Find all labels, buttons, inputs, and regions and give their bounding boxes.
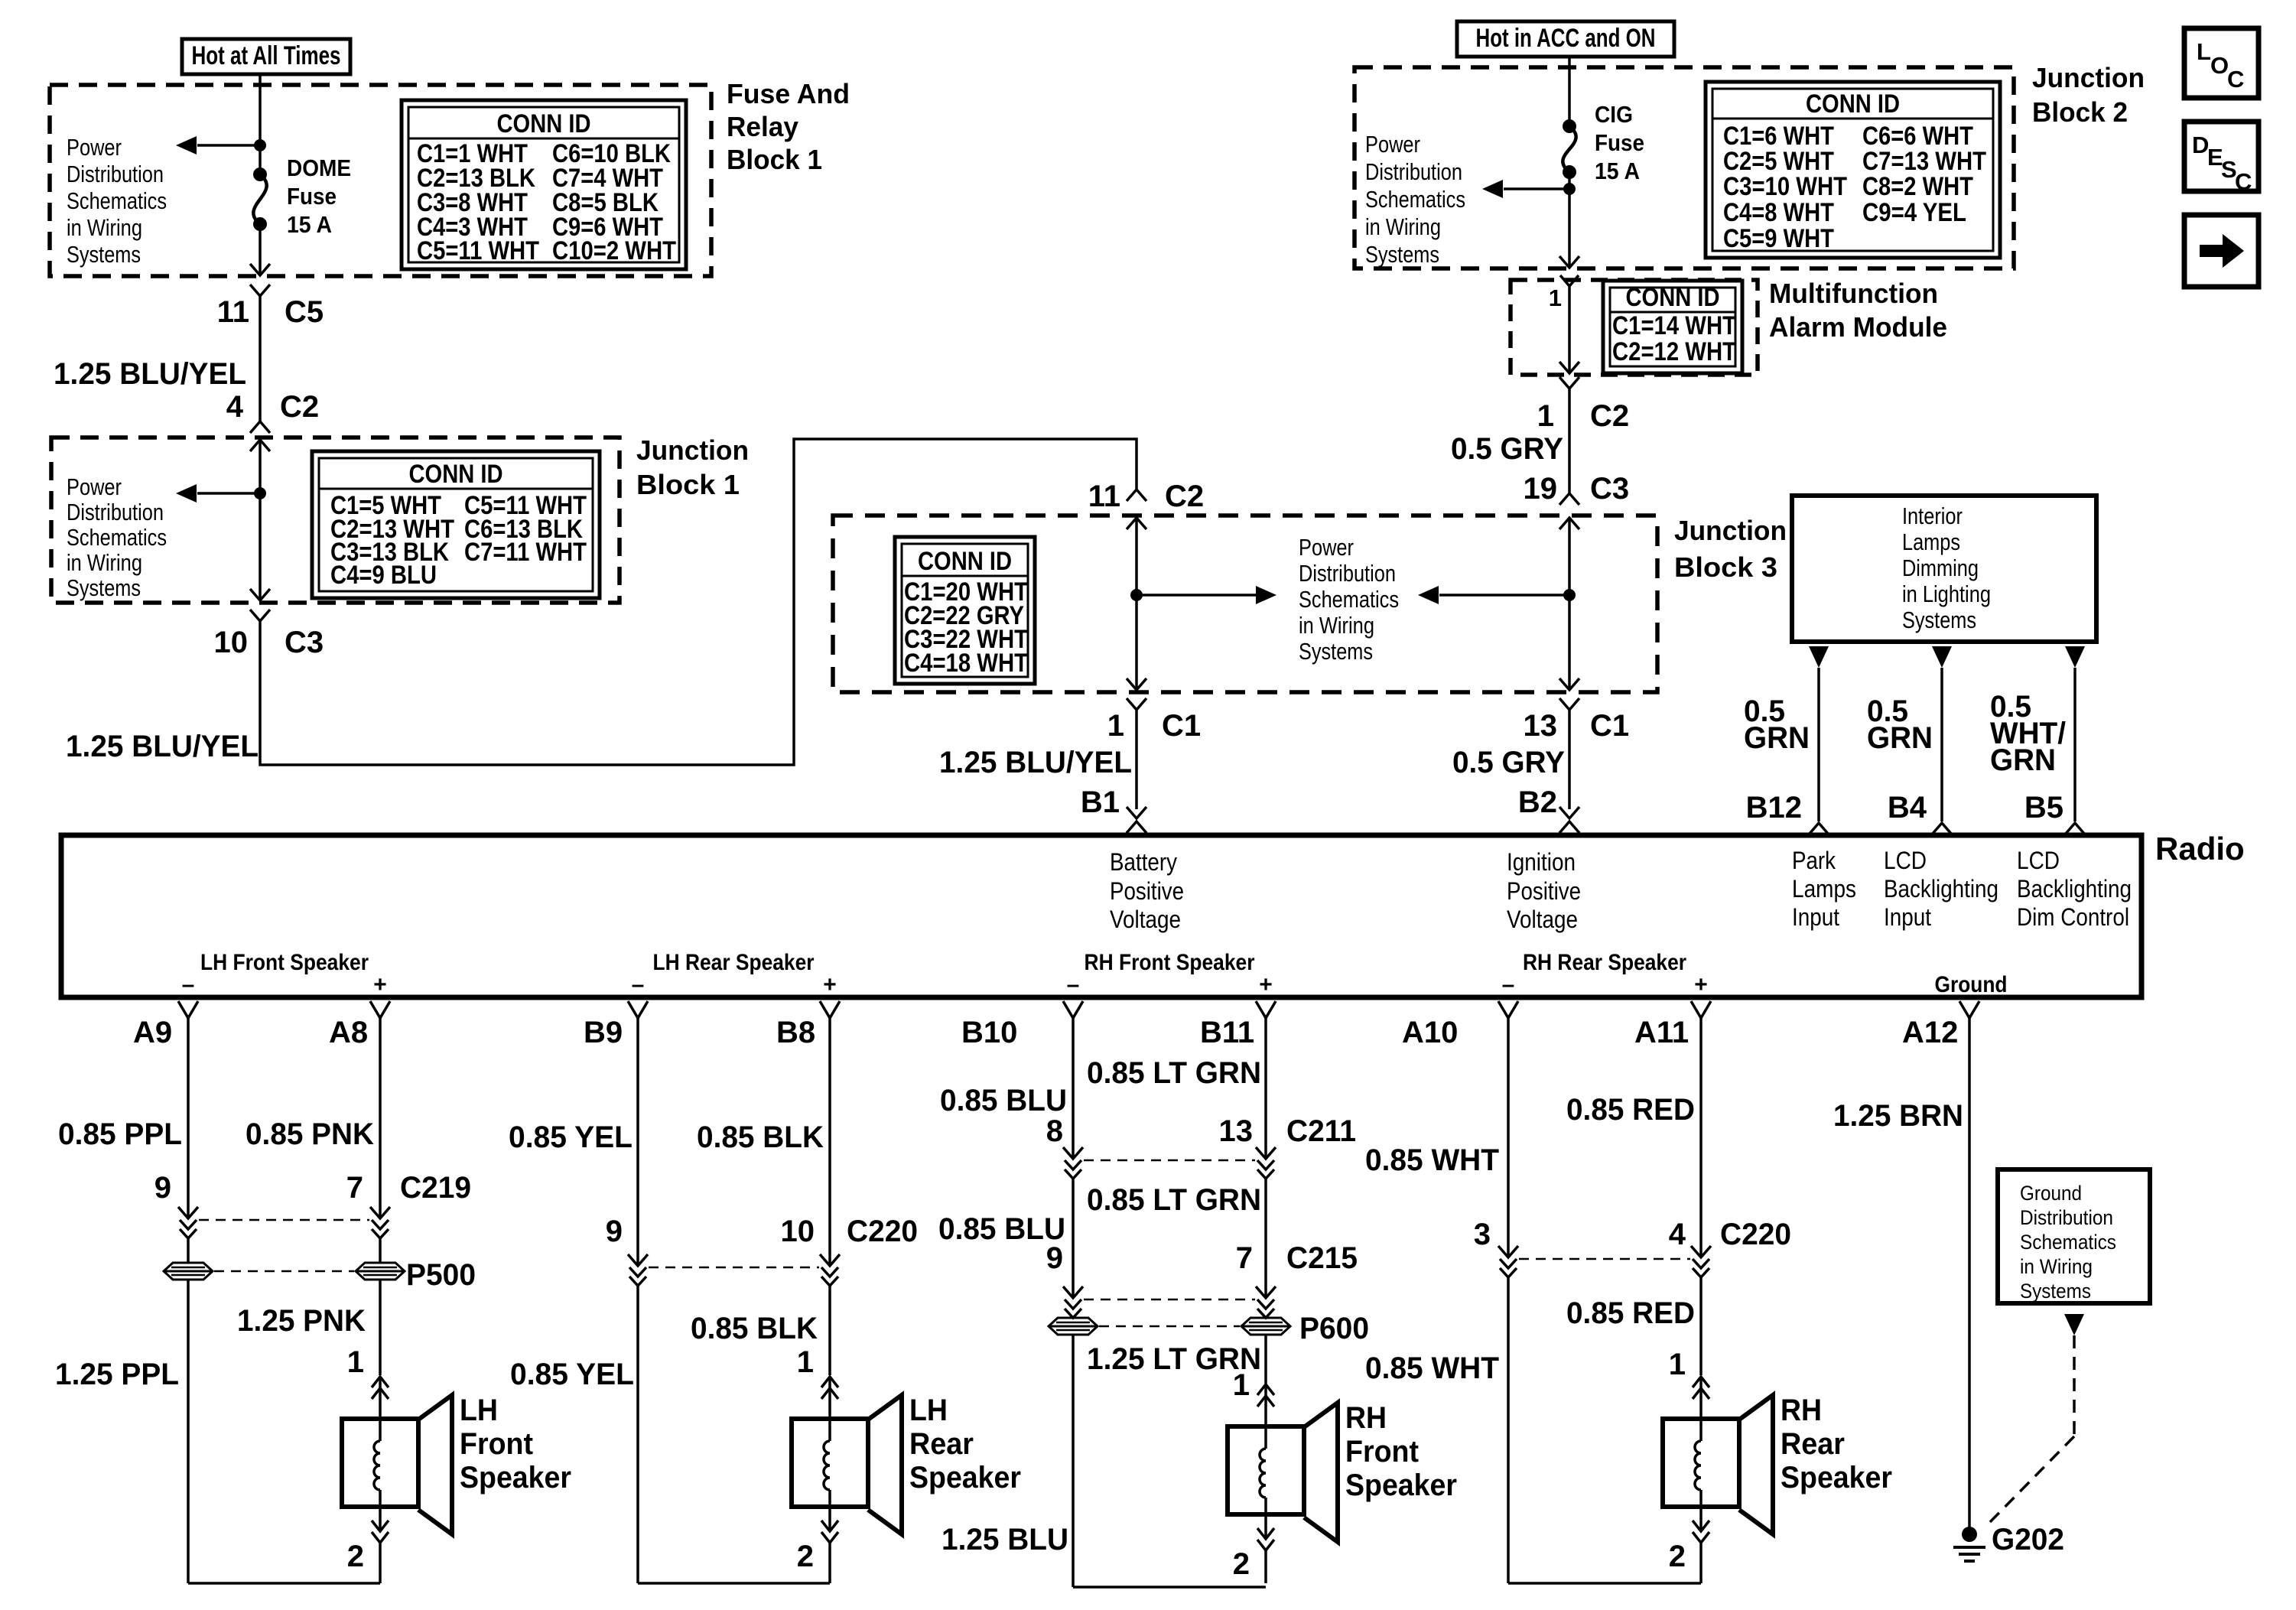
svg-text:GRN: GRN [1867, 721, 1933, 755]
wire speaker return to B10 (RH front) [1073, 1586, 1266, 1589]
svg-text:4: 4 [1669, 1218, 1686, 1251]
wire A12 1.25 BRN ground [1968, 1017, 1971, 1530]
svg-text:Voltage: Voltage [1507, 906, 1578, 933]
svg-text:0.85 LT GRN: 0.85 LT GRN [1087, 1056, 1261, 1090]
connector C3 pin 10 break [250, 610, 270, 621]
svg-text:+: + [823, 972, 837, 997]
svg-text:in Wiring: in Wiring [67, 549, 142, 576]
svg-text:+: + [1694, 972, 1708, 997]
svg-text:LH Rear Speaker: LH Rear Speaker [653, 950, 815, 975]
svg-text:in Lighting: in Lighting [1902, 581, 1991, 607]
svg-text:B12: B12 [1746, 791, 1802, 825]
connector C220 break (LH rear) [628, 1254, 648, 1266]
svg-text:LCD: LCD [1884, 847, 1927, 874]
wire A9 1.25 PPL [187, 1280, 190, 1583]
svg-text:Hot at All Times: Hot at All Times [192, 41, 341, 70]
svg-text:2: 2 [1233, 1547, 1250, 1581]
svg-text:B10: B10 [961, 1016, 1017, 1049]
connector C2 pin 1 break (alarm) [1559, 377, 1579, 389]
svg-text:C219: C219 [400, 1171, 471, 1205]
wire B10 0.85 BLU [1072, 1018, 1075, 1159]
svg-text:0.85 PNK: 0.85 PNK [246, 1117, 374, 1151]
svg-text:Distribution: Distribution [67, 161, 164, 187]
svg-text:Junction: Junction [2032, 62, 2145, 93]
svg-text:Power: Power [67, 473, 122, 500]
wire JB3 right leg [1559, 518, 1579, 529]
arrow (down) at fuse block exit [250, 264, 270, 275]
svg-text:1.25 BLU/YEL: 1.25 BLU/YEL [66, 730, 259, 763]
dashed box Fuse And Relay Block 1 [50, 85, 711, 276]
label "Hot in ACC and ON" [1457, 21, 1674, 57]
svg-text:+: + [1259, 972, 1273, 997]
junction node JB2 [1563, 183, 1576, 195]
arrow right to schematics text (JB3) [1137, 594, 1266, 597]
svg-text:Systems: Systems [2020, 1280, 2091, 1303]
wire 1.25 BLU/YEL JB1 to JB3 C2 [260, 439, 1137, 765]
svg-text:2: 2 [347, 1540, 364, 1573]
svg-text:Junction: Junction [636, 434, 749, 466]
svg-text:1: 1 [1669, 1348, 1686, 1381]
svg-text:B9: B9 [584, 1016, 623, 1049]
svg-text:C7=11 WHT: C7=11 WHT [464, 538, 587, 567]
svg-text:Systems: Systems [1365, 241, 1439, 268]
connector C1 pin 13 break (right) [1559, 698, 1579, 710]
dashed box Junction Block 3 [833, 516, 1657, 692]
svg-text:Front: Front [1345, 1435, 1419, 1469]
svg-text:0.85 RED: 0.85 RED [1566, 1093, 1695, 1127]
svg-text:C4=8 WHT: C4=8 WHT [1723, 198, 1834, 227]
svg-text:1.25 BRN: 1.25 BRN [1833, 1099, 1963, 1133]
svg-text:GRN: GRN [1744, 721, 1810, 755]
svg-text:Systems: Systems [1299, 638, 1373, 665]
legend box DESC [2184, 122, 2259, 191]
svg-text:1: 1 [1549, 285, 1562, 311]
component Radio (box) [61, 835, 2142, 997]
svg-text:1.25 PPL: 1.25 PPL [55, 1358, 179, 1391]
svg-text:Dimming: Dimming [1902, 555, 1979, 581]
label "Hot at All Times" [182, 39, 350, 74]
radio pin A12 connector [1959, 1001, 1979, 1018]
wire B9 0.85 YEL [636, 1018, 639, 1266]
svg-text:8: 8 [1046, 1114, 1063, 1148]
svg-text:Block 3: Block 3 [1674, 551, 1777, 583]
svg-text:A12: A12 [1902, 1016, 1958, 1049]
radio pin A9 connector [178, 1001, 198, 1018]
svg-text:1.25 BLU/YEL: 1.25 BLU/YEL [939, 746, 1132, 779]
svg-text:Positive: Positive [1110, 877, 1184, 905]
svg-text:C211: C211 [1286, 1114, 1356, 1148]
wire interior lamps to radio B12 [1809, 646, 1829, 668]
svg-text:1: 1 [347, 1345, 364, 1379]
in-line connector P500 [164, 1263, 213, 1280]
svg-text:Dim Control: Dim Control [2017, 903, 2129, 931]
wire ignition feed through JB2 [1568, 57, 1571, 126]
svg-text:0.5 GRY: 0.5 GRY [1452, 746, 1565, 779]
svg-text:CONN ID: CONN ID [918, 547, 1012, 576]
legend box LOC [2184, 28, 2259, 98]
wire A10 0.85 WHT [1507, 1018, 1510, 1257]
svg-text:C: C [2227, 66, 2244, 93]
svg-text:Interior: Interior [1902, 503, 1963, 529]
wire A9 to P500 [187, 1238, 190, 1263]
connector table alarm CONN ID [1603, 281, 1742, 373]
speaker RH Rear Speaker [1693, 1377, 1709, 1387]
svg-text:Distribution: Distribution [1365, 158, 1462, 185]
svg-text:1: 1 [797, 1345, 814, 1379]
svg-text:B5: B5 [2024, 791, 2063, 825]
svg-text:–: – [1067, 972, 1080, 997]
svg-text:A8: A8 [329, 1016, 368, 1049]
svg-text:CONN ID: CONN ID [497, 109, 591, 138]
wire B10 1.25 BLU [1072, 1335, 1075, 1587]
svg-text:C2: C2 [280, 390, 319, 424]
arrow below ground distribution box [2064, 1314, 2084, 1335]
box Interior Lamps Dimming in Lighting Systems [1792, 496, 2096, 642]
svg-text:Input: Input [1792, 903, 1839, 931]
svg-text:13: 13 [1219, 1114, 1254, 1148]
svg-text:15 A: 15 A [287, 211, 332, 238]
wire through alarm module [1560, 275, 1579, 286]
connector C219 break [178, 1207, 198, 1218]
svg-text:P500: P500 [406, 1258, 476, 1292]
junction node JB3 left [1130, 589, 1143, 601]
svg-text:Fuse And: Fuse And [727, 78, 850, 109]
wire B8 0.85 BLK [828, 1018, 831, 1266]
wire JB3 left leg [1127, 518, 1146, 529]
svg-text:C1=14 WHT: C1=14 WHT [1612, 311, 1736, 340]
connector table JB3 CONN ID [895, 537, 1035, 684]
svg-text:Schematics: Schematics [67, 524, 167, 551]
svg-text:C10=2 WHT: C10=2 WHT [552, 236, 676, 265]
svg-text:Backlighting: Backlighting [2017, 875, 2132, 903]
wire 1.25 BLU/YEL C5 to C2 [259, 296, 262, 421]
svg-text:Fuse: Fuse [287, 183, 337, 210]
svg-text:9: 9 [1046, 1241, 1063, 1275]
svg-text:B8: B8 [776, 1016, 815, 1049]
svg-text:Backlighting: Backlighting [1884, 875, 1998, 903]
svg-text:B4: B4 [1888, 791, 1927, 825]
svg-text:LCD: LCD [2017, 847, 2060, 874]
svg-text:Ground: Ground [1935, 972, 2008, 997]
svg-text:Multifunction: Multifunction [1769, 278, 1938, 309]
svg-text:Power: Power [1365, 131, 1420, 158]
svg-text:0.85 WHT: 0.85 WHT [1365, 1351, 1499, 1385]
svg-text:–: – [632, 972, 645, 997]
svg-text:C3: C3 [285, 626, 324, 659]
svg-text:Alarm Module: Alarm Module [1769, 311, 1947, 343]
svg-text:11: 11 [217, 295, 249, 329]
box Ground Distribution Schematics [1998, 1169, 2150, 1303]
svg-text:0.85 LT GRN: 0.85 LT GRN [1087, 1183, 1261, 1217]
connector table JB1 CONN ID [312, 451, 600, 598]
svg-text:Speaker: Speaker [460, 1461, 571, 1495]
svg-text:13: 13 [1524, 709, 1558, 743]
svg-text:RH Rear Speaker: RH Rear Speaker [1523, 950, 1686, 975]
svg-text:Rear: Rear [1781, 1427, 1845, 1461]
svg-text:C5=9 WHT: C5=9 WHT [1723, 224, 1834, 253]
svg-text:Distribution: Distribution [2020, 1206, 2113, 1229]
wire speaker return to B9 (LH rear) [638, 1582, 830, 1585]
svg-text:C1: C1 [1162, 709, 1201, 743]
svg-text:Lamps: Lamps [1902, 529, 1960, 555]
svg-text:G202: G202 [1992, 1523, 2064, 1556]
svg-text:Junction: Junction [1674, 515, 1787, 546]
svg-text:0.85 BLK: 0.85 BLK [691, 1312, 818, 1345]
svg-text:Hot in ACC and ON: Hot in ACC and ON [1476, 24, 1656, 53]
svg-text:Schematics: Schematics [1365, 186, 1465, 213]
svg-text:2: 2 [797, 1540, 814, 1573]
svg-text:C215: C215 [1286, 1241, 1358, 1275]
fuse CIG 15A [1563, 119, 1576, 133]
svg-text:A10: A10 [1402, 1016, 1458, 1049]
svg-text:Systems: Systems [67, 574, 141, 601]
svg-text:0.85 PPL: 0.85 PPL [58, 1117, 182, 1151]
dashed wire to ground G202 [2073, 1335, 2076, 1436]
svg-text:in Wiring: in Wiring [1299, 612, 1374, 639]
svg-text:Ground: Ground [2020, 1182, 2082, 1205]
dashed box Junction Block 2 [1355, 67, 2014, 268]
svg-text:Block 1: Block 1 [727, 144, 822, 175]
junction node JB3 right [1563, 589, 1576, 601]
svg-text:19: 19 [1524, 472, 1558, 506]
svg-text:Positive: Positive [1507, 877, 1581, 905]
ground G202 node [1962, 1527, 1977, 1542]
connector table FB1 CONN ID [402, 100, 686, 269]
connector C220 break (RH rear) [1498, 1246, 1518, 1257]
wire interior lamps to radio B4 [1932, 646, 1952, 668]
svg-text:C1: C1 [1590, 709, 1629, 743]
svg-text:1.25 BLU: 1.25 BLU [941, 1523, 1068, 1556]
svg-text:CONN ID: CONN ID [1626, 283, 1720, 312]
svg-text:C2=12 WHT: C2=12 WHT [1612, 337, 1736, 366]
wire A8 1.25 PNK [379, 1280, 382, 1375]
svg-text:in Wiring: in Wiring [67, 214, 142, 241]
wire B11 0.85 LT GRN [1264, 1018, 1267, 1159]
radio pin B11 connector [1256, 1001, 1276, 1018]
legend box forward arrow [2184, 215, 2259, 287]
dashed box Junction Block 1 [51, 437, 620, 603]
svg-text:9: 9 [606, 1215, 623, 1248]
svg-text:C2: C2 [1590, 399, 1629, 433]
wire A8 0.85 PNK [379, 1018, 382, 1218]
wire 0.5 GRY C2 to C3 [1568, 389, 1571, 493]
svg-text:Park: Park [1792, 847, 1836, 874]
svg-text:Ignition: Ignition [1507, 848, 1576, 876]
svg-text:Power: Power [67, 134, 122, 161]
svg-text:0.85 BLU: 0.85 BLU [940, 1084, 1067, 1117]
svg-text:Relay: Relay [727, 111, 798, 142]
wire speaker return to A9 (LH front) [188, 1582, 380, 1585]
svg-text:15 A: 15 A [1595, 158, 1640, 184]
svg-text:0.85 YEL: 0.85 YEL [510, 1358, 634, 1391]
svg-text:0.85 YEL: 0.85 YEL [509, 1120, 633, 1154]
svg-text:O: O [2210, 52, 2229, 79]
svg-text:–: – [182, 972, 195, 997]
dashed box Multifunction Alarm Module [1511, 280, 1758, 375]
fuse DOME 15A [253, 168, 267, 181]
svg-text:Battery: Battery [1110, 848, 1177, 876]
wire A9 0.85 PPL [187, 1018, 190, 1218]
junction node JB1 [254, 487, 266, 499]
wire B10 0.85 BLU mid [1072, 1179, 1075, 1298]
svg-text:2: 2 [1669, 1540, 1686, 1573]
connector C1 pin 1 break (left) [1127, 698, 1146, 710]
wire interior lamps to radio B5 [2065, 646, 2085, 668]
svg-text:Schematics: Schematics [2020, 1231, 2116, 1254]
wire B11 1.25 LT GRN [1264, 1335, 1267, 1384]
wire 1.25 BLU/YEL to radio B1 [1135, 710, 1138, 809]
svg-text:0.85 BLK: 0.85 BLK [697, 1120, 824, 1154]
in-line connector P600 [1049, 1318, 1098, 1335]
radio pin A8 connector [370, 1001, 390, 1018]
radio pin B10 connector [1063, 1001, 1083, 1018]
svg-text:Rear: Rear [909, 1427, 974, 1461]
svg-text:10: 10 [214, 626, 249, 659]
connector C5 pin 11 break [250, 285, 270, 296]
svg-text:7: 7 [346, 1171, 363, 1205]
radio pin A11 connector [1691, 1001, 1711, 1018]
svg-text:in Wiring: in Wiring [1365, 213, 1441, 240]
wire A11 0.85 RED lower [1699, 1277, 1702, 1375]
svg-text:CIG: CIG [1595, 101, 1633, 128]
wire B9 0.85 YEL lower [636, 1286, 639, 1583]
svg-text:RH: RH [1345, 1401, 1387, 1435]
svg-text:B11: B11 [1200, 1016, 1254, 1049]
svg-text:C8=2 WHT: C8=2 WHT [1862, 172, 1973, 201]
radio pin B9 connector [628, 1001, 648, 1018]
arrow to power distribution schematics (JB2) [1504, 187, 1569, 190]
wire A11 0.85 RED [1699, 1018, 1702, 1257]
svg-text:Schematics: Schematics [67, 187, 167, 214]
speaker LH Front Speaker [372, 1377, 389, 1387]
svg-text:Speaker: Speaker [1781, 1461, 1892, 1495]
svg-text:C3=10 WHT: C3=10 WHT [1723, 172, 1847, 201]
svg-text:0.85 WHT: 0.85 WHT [1365, 1143, 1499, 1177]
svg-text:1.25 BLU/YEL: 1.25 BLU/YEL [54, 357, 246, 391]
svg-text:1: 1 [1233, 1368, 1250, 1402]
svg-text:RH: RH [1781, 1394, 1822, 1427]
svg-text:B2: B2 [1518, 785, 1557, 819]
svg-text:1: 1 [1537, 399, 1554, 433]
svg-text:4: 4 [226, 390, 244, 424]
radio pin A10 connector [1498, 1001, 1518, 1018]
wire speaker return to A10 (RH rear) [1508, 1582, 1701, 1585]
svg-text:A9: A9 [133, 1016, 172, 1049]
svg-text:0.85 RED: 0.85 RED [1566, 1296, 1695, 1330]
svg-text:DOME: DOME [287, 154, 351, 181]
connector C211 break [1063, 1147, 1083, 1159]
svg-text:C5=11 WHT: C5=11 WHT [417, 236, 539, 265]
arrow to power distribution schematics (JB1) [197, 492, 260, 495]
svg-text:C9=4 YEL: C9=4 YEL [1862, 198, 1966, 227]
connector C2 pin 4 break [250, 421, 270, 433]
wire 0.5 GRY to radio B2 [1568, 710, 1571, 809]
svg-text:+: + [373, 972, 387, 997]
svg-text:C2: C2 [1165, 480, 1204, 513]
svg-text:Block 2: Block 2 [2032, 96, 2128, 128]
svg-text:C: C [2235, 168, 2252, 195]
wire A10 0.85 WHT lower [1507, 1277, 1510, 1583]
svg-text:9: 9 [154, 1171, 171, 1205]
speaker RH Front Speaker [1257, 1384, 1274, 1395]
arrow left to schematics text (JB3) [1439, 594, 1569, 597]
svg-text:Systems: Systems [1902, 607, 1976, 633]
svg-text:Radio: Radio [2155, 831, 2245, 867]
svg-text:B1: B1 [1081, 785, 1120, 819]
svg-text:A11: A11 [1634, 1016, 1689, 1049]
svg-text:C4=18 WHT: C4=18 WHT [904, 649, 1028, 678]
wire A8 to P500 [379, 1238, 382, 1263]
svg-text:Distribution: Distribution [1299, 560, 1396, 587]
svg-text:Voltage: Voltage [1110, 906, 1181, 933]
wire through Junction Block 1 [250, 440, 270, 451]
svg-text:11: 11 [1088, 480, 1120, 513]
connector C215 break [1063, 1286, 1083, 1298]
svg-text:C4=9 BLU: C4=9 BLU [330, 561, 437, 590]
svg-text:10: 10 [781, 1215, 815, 1248]
svg-text:Systems: Systems [67, 241, 141, 268]
wire B8 0.85 BLK lower [828, 1286, 831, 1375]
svg-text:LH: LH [460, 1394, 498, 1427]
svg-text:7: 7 [1236, 1241, 1253, 1275]
svg-text:Speaker: Speaker [1345, 1469, 1457, 1502]
svg-text:P600: P600 [1299, 1312, 1369, 1345]
wire hot feed into fuse block [259, 74, 262, 174]
svg-text:C5: C5 [285, 295, 324, 329]
svg-text:Schematics: Schematics [1299, 586, 1399, 613]
svg-text:Speaker: Speaker [909, 1461, 1021, 1495]
svg-text:0.5 GRY: 0.5 GRY [1451, 432, 1563, 466]
connector table JB2 CONN ID [1706, 82, 2000, 258]
radio pin B8 connector [820, 1001, 840, 1018]
svg-text:CONN ID: CONN ID [409, 460, 503, 489]
svg-text:LH: LH [909, 1394, 948, 1427]
speaker LH Rear Speaker [821, 1377, 838, 1387]
svg-text:3: 3 [1474, 1218, 1491, 1251]
svg-text:Power: Power [1299, 534, 1354, 561]
svg-text:Input: Input [1884, 903, 1931, 931]
svg-text:C220: C220 [847, 1215, 918, 1248]
svg-text:in Wiring: in Wiring [2020, 1255, 2093, 1278]
svg-text:Lamps: Lamps [1792, 875, 1856, 903]
svg-text:CONN ID: CONN ID [1806, 89, 1900, 119]
svg-text:GRN: GRN [1990, 743, 2056, 777]
arrow to power distribution schematics (FB1) [197, 144, 260, 147]
junction node on hot feed [254, 139, 266, 151]
svg-text:1.25 PNK: 1.25 PNK [237, 1304, 366, 1338]
svg-text:C220: C220 [1720, 1218, 1791, 1251]
svg-text:Distribution: Distribution [67, 499, 164, 525]
svg-text:RH Front Speaker: RH Front Speaker [1085, 950, 1255, 975]
svg-text:–: – [1502, 972, 1515, 997]
wire B11 0.85 LT GRN mid [1264, 1179, 1267, 1298]
svg-text:L: L [2197, 38, 2211, 65]
svg-text:Block 1: Block 1 [636, 469, 740, 500]
svg-text:Fuse: Fuse [1595, 129, 1644, 156]
svg-text:LH Front Speaker: LH Front Speaker [200, 950, 369, 975]
svg-text:C3: C3 [1590, 472, 1629, 506]
svg-text:1: 1 [1107, 709, 1124, 743]
svg-text:Front: Front [460, 1427, 533, 1461]
